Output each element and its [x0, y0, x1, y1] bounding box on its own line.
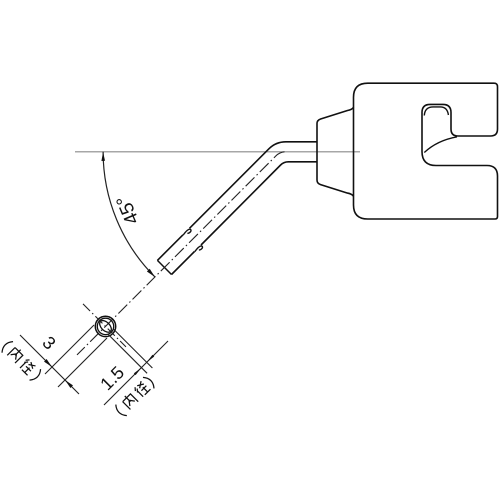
horizontal centerline — [75, 151, 360, 153]
slot inner top arc — [424, 107, 448, 116]
nozzle body outline — [354, 83, 498, 219]
tip outer circle — [95, 316, 115, 336]
dim1.5 dimension line — [104, 341, 168, 405]
dim label 1.5 unit — [113, 375, 156, 418]
tip transverse centerline — [83, 304, 126, 347]
angle arc — [103, 152, 155, 277]
dim3 arrow lower — [65, 380, 73, 388]
dim3 dimension line — [20, 335, 79, 394]
dim1.5 extension line lower — [108, 334, 147, 373]
tube axis centerline — [77, 152, 285, 355]
tube break curl bottom — [195, 246, 203, 252]
slot inner fillet line — [424, 137, 457, 153]
dim label 3 unit — [0, 339, 43, 382]
angle arrow bottom — [147, 269, 155, 277]
dim1.5 extension line upper — [114, 329, 153, 368]
tube top line — [157, 142, 317, 261]
tube end cut — [157, 260, 171, 274]
dim3 arrow upper — [44, 359, 52, 367]
tip bore ellipse — [98, 318, 114, 334]
tube bottom line — [172, 162, 318, 275]
angle arrow top — [101, 152, 105, 161]
tube break curl top — [183, 229, 191, 235]
dim3 extension line upper — [45, 325, 94, 374]
tip wall circle — [97, 318, 113, 334]
dim1.5 arrow lower — [134, 368, 142, 376]
dim3 extension line lower — [58, 338, 107, 387]
taper outline — [317, 107, 354, 196]
dim1.5 arrow upper — [147, 355, 155, 363]
